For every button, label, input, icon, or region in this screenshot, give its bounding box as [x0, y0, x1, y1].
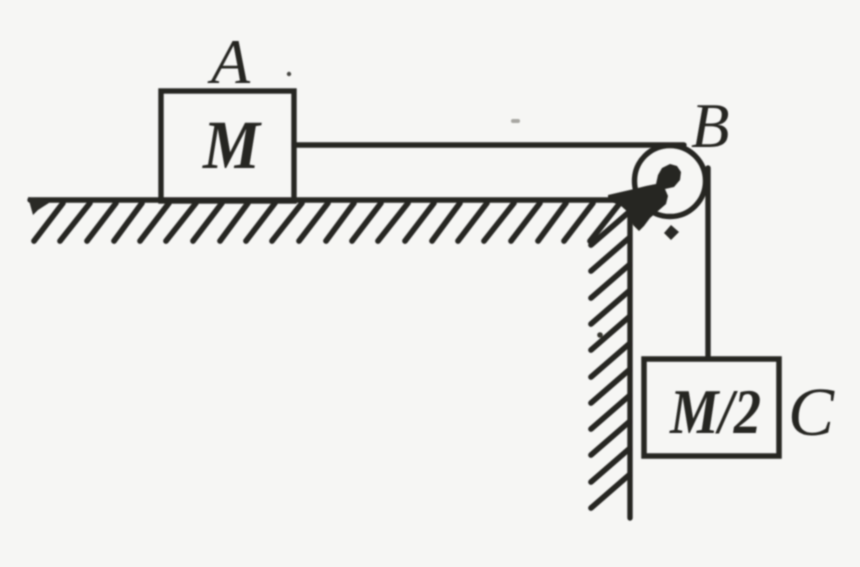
- svg-text:B: B: [691, 91, 729, 161]
- svg-text:A: A: [207, 26, 251, 97]
- svg-text:M: M: [202, 107, 262, 183]
- svg-text:C: C: [788, 374, 835, 450]
- svg-text:M/2: M/2: [669, 376, 761, 447]
